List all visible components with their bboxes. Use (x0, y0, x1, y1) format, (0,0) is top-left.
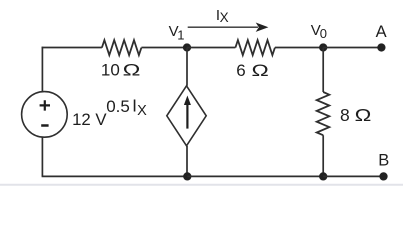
svg-text:0: 0 (320, 26, 327, 41)
terminal A dot (377, 43, 385, 51)
wire: top horizontal from node V0 to terminal A (323, 47, 381, 49)
terminal B dot (379, 172, 387, 180)
wire: from node V1 down to dependent source top (186, 48, 188, 86)
arrow inside dependent source pointing up (186, 104, 188, 129)
wire: from dependent source bottom to bottom wire (186, 146, 188, 177)
resistor R3 8 ohm vertical zigzag (317, 92, 330, 135)
svg-text:1: 1 (177, 28, 184, 43)
dependent current source 0.5Ix diamond (167, 86, 206, 146)
resistor R2 6 ohm zigzag (235, 40, 275, 55)
bottom junction dot 2 (below 8-ohm) (319, 172, 327, 180)
svg-text:Ω: Ω (355, 106, 372, 125)
arrow: current Ix direction arrow above top wire (188, 26, 258, 28)
wire: top horizontal from 6-ohm to node V0 (275, 47, 323, 49)
svg-text:10: 10 (101, 61, 120, 80)
svg-text:6: 6 (236, 61, 245, 80)
wire: top horizontal from left corner to 10-ohm resistor (42, 47, 102, 49)
wire: from node V0 down to 8-ohm resistor (322, 48, 324, 93)
svg-text:Ω: Ω (123, 61, 141, 80)
svg-text:0.5: 0.5 (106, 97, 130, 116)
svg-text:12 V: 12 V (72, 110, 107, 129)
wire: top horizontal from node V1 to 6-ohm resistor (187, 47, 235, 49)
wire: bottom horizontal from junction 2 to terminal B (323, 175, 383, 177)
wire: from 8-ohm resistor to bottom wire (322, 135, 324, 176)
svg-text:Ω: Ω (252, 62, 269, 80)
resistor R1 10 ohm zigzag (102, 40, 141, 55)
wire: top horizontal from 10-ohm to node V1 (141, 47, 187, 49)
svg-text:B: B (378, 151, 389, 169)
voltage source minus sign (41, 124, 48, 127)
divider line at page bottom (0, 184, 403, 186)
voltage source plus sign (40, 100, 50, 110)
svg-text:A: A (376, 23, 387, 41)
node V0 junction dot (319, 43, 327, 51)
svg-text:X: X (137, 103, 147, 119)
voltage source V1 12V circle (22, 92, 68, 138)
wire: bottom horizontal from junction 1 to junction 2 (187, 175, 323, 177)
wire: left vertical from top-left corner down to voltage source top (41, 47, 43, 92)
wire: bottom horizontal from left corner to bottom junction 1 (42, 175, 188, 177)
wire: left vertical from voltage source bottom to bottom wire (41, 137, 43, 176)
node V1 junction dot (183, 43, 191, 51)
svg-text:X: X (220, 10, 229, 25)
svg-text:8: 8 (340, 105, 350, 125)
bottom junction dot 1 (below dependent source) (183, 172, 191, 180)
